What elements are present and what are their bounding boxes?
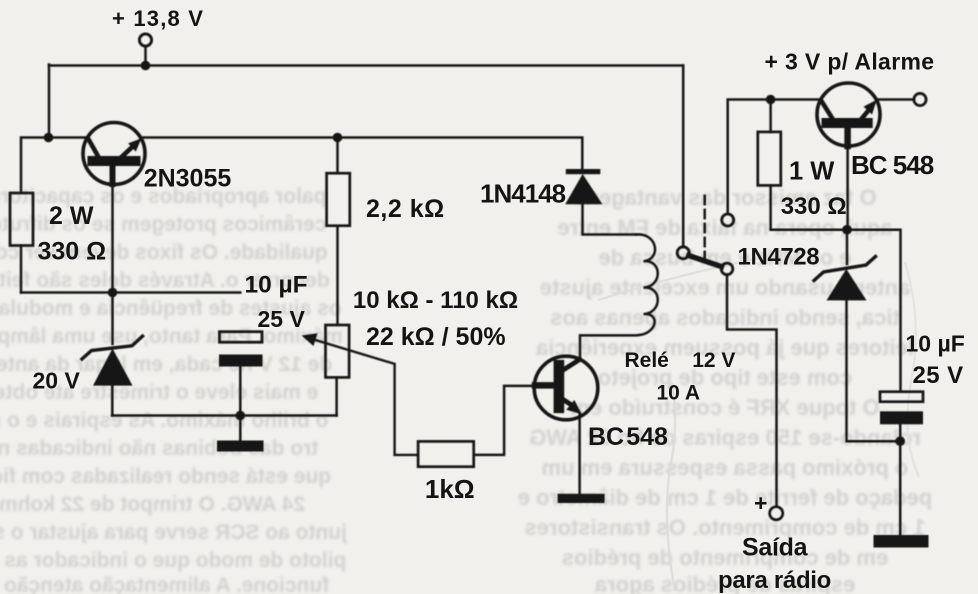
- wire C1 bottom lead: [239, 367, 242, 416]
- junction dot supply: [141, 61, 151, 71]
- svg-text:330 Ω: 330 Ω: [781, 193, 847, 220]
- wire R1 bottom lead: [20, 246, 23, 293]
- transistor Q3 emitter stroke: [861, 111, 868, 120]
- wire collector rail to Q1: [49, 136, 89, 139]
- transistor Q2 collector stroke: [564, 359, 580, 369]
- svg-text:25 V: 25 V: [913, 362, 964, 389]
- svg-text:o próximo passa espessura em u: o próximo passa espessura em um: [542, 455, 909, 480]
- zener D2 20V cathode bar: [82, 336, 143, 359]
- transistor Q1 base bar: [88, 156, 141, 166]
- capacitor C2 top plate: [880, 392, 923, 402]
- node radio output terminal: [770, 507, 783, 520]
- wire switch feed from rail: [682, 66, 685, 247]
- svg-text:2N3055: 2N3055: [144, 165, 232, 193]
- diode D1 1N4148 cathode bar: [566, 169, 601, 174]
- junction dot zener top: [842, 225, 852, 235]
- wire R2 to trimpot: [336, 226, 339, 325]
- wire ground stub C1: [239, 416, 242, 441]
- svg-text:junto ao SCR serve para ajusta: junto ao SCR serve para ajustar o sinal: [0, 521, 348, 544]
- bleed-through mirrored text (back of page): [0, 185, 932, 594]
- node +13,8V terminal: [139, 34, 151, 46]
- transistor Q2 BC548 mid circle: [534, 356, 598, 420]
- relay K1 coil: [580, 234, 658, 359]
- svg-text:2 W: 2 W: [49, 202, 94, 230]
- wire C2 bottom lead: [899, 424, 902, 441]
- svg-text:1N4148: 1N4148: [480, 179, 566, 209]
- svg-text:330 Ω: 330 Ω: [38, 238, 107, 266]
- svg-text:1 cm de comprimento. Os transi: 1 cm de comprimento. Os transistores: [524, 515, 925, 540]
- ground bar middle: [558, 494, 605, 503]
- capacitor C1 top plate: [220, 332, 263, 343]
- diode D1 triangle: [565, 174, 602, 204]
- wire R4 top lead: [769, 100, 772, 132]
- svg-text:BC 548: BC 548: [851, 150, 934, 180]
- svg-text:10 µF: 10 µF: [245, 272, 308, 299]
- ground bar left: [217, 441, 264, 452]
- wire Q1 emitter rail right: [140, 138, 582, 170]
- wire top supply rail: [49, 64, 683, 67]
- wire bottom rail 2: [112, 414, 337, 417]
- zener D2 triangle: [93, 349, 133, 386]
- zener D3 1N4728 cathode bar: [814, 257, 876, 281]
- switch S1 pole contact: [677, 247, 689, 259]
- switch S1 dashed link: [703, 196, 706, 259]
- junction dot left rail: [44, 133, 54, 143]
- junction dot alarm rail: [766, 95, 776, 105]
- wire Q3 emitter to terminal: [876, 98, 914, 101]
- transistor Q3 base bar: [822, 118, 873, 128]
- junction dot 2.2k top: [333, 133, 343, 143]
- svg-text:+ 13,8 V: + 13,8 V: [112, 6, 204, 31]
- svg-text:que está sendo realizadas com: que está sendo realizadas com fio 2: [0, 465, 331, 488]
- transistor Q1 emitter stroke: [122, 146, 134, 157]
- wire D2 anode lead: [111, 386, 114, 416]
- svg-text:20 V: 20 V: [33, 368, 81, 394]
- svg-text:BC 548: BC 548: [588, 423, 668, 451]
- svg-text:+: +: [754, 490, 767, 516]
- transistor Q1 collector stroke: [88, 138, 99, 157]
- svg-text:piloto de modo que o indicador: piloto de modo que o indicador as leve: [0, 549, 346, 572]
- wire bottom-left rail: [21, 291, 240, 294]
- svg-text:25 V: 25 V: [258, 306, 306, 332]
- wire jog to R1 top: [21, 138, 49, 194]
- svg-text:22 kΩ / 50%: 22 kΩ / 50%: [366, 323, 506, 351]
- trimpot P1 body: [326, 325, 350, 377]
- transistor Q2 base bar: [554, 360, 565, 413]
- svg-text:10 A: 10 A: [657, 382, 701, 405]
- zener D3 triangle: [827, 269, 867, 300]
- wire ground stub C2: [899, 441, 902, 535]
- svg-text:24 AWG. O trimpot de 22 kohm: 24 AWG. O trimpot de 22 kohm: [0, 493, 305, 516]
- wire terminal stub: [144, 46, 147, 66]
- svg-text:10 µF: 10 µF: [906, 331, 965, 357]
- trimpot P1 wiper diagonal: [306, 337, 418, 455]
- transistor Q3 collector stroke: [821, 100, 833, 120]
- svg-text:10 kΩ - 110 kΩ: 10 kΩ - 110 kΩ: [353, 287, 518, 314]
- wire Q1 base down to zener: [110, 165, 116, 184]
- ground bar right: [874, 535, 929, 548]
- svg-text:1N4728: 1N4728: [738, 244, 820, 271]
- switch S1 lower throw contact: [721, 263, 733, 275]
- svg-text:O toque XRF é construído em: O toque XRF é construído em: [570, 395, 879, 420]
- faint scan crease bottom middle: [667, 383, 675, 591]
- wire upper throw to alarm rail: [728, 100, 822, 214]
- wire switch lower throw to output: [727, 275, 777, 507]
- resistor R2 2.2k body: [327, 173, 350, 226]
- junction dot base line on bottom-left rail: [108, 288, 118, 298]
- switch S1 upper throw contact: [722, 214, 734, 226]
- transistor Q3 emitter arrowhead: [864, 100, 877, 115]
- svg-text:2,2 kΩ: 2,2 kΩ: [366, 195, 445, 223]
- faint scan arc right edge: [905, 262, 919, 477]
- faint scan arc under 1N4728: [598, 252, 792, 300]
- node alarm output terminal: [914, 93, 926, 105]
- resistor R3 1k body: [418, 441, 474, 466]
- wire Q3 base down: [844, 127, 851, 146]
- wire Q2 emitter down: [578, 413, 581, 494]
- wire R3 to Q2 base: [474, 386, 536, 455]
- wire D3 top lead: [846, 230, 849, 264]
- wire left drop to collector rail: [48, 65, 51, 138]
- transistor Q3 BC548 top circle: [817, 83, 880, 146]
- wire trimpot bottom lead: [335, 377, 338, 415]
- transistor Q2 emitter arrowhead: [566, 400, 582, 414]
- wire D1 anode to relay top: [583, 204, 637, 234]
- wire R4 bottom lead: [769, 185, 772, 229]
- junction dot C1 bottom: [236, 411, 246, 421]
- svg-text:1 W: 1 W: [789, 158, 835, 186]
- trimpot P1 wiper arrowhead: [302, 333, 318, 346]
- transistor Q1 2N3055 circle: [83, 123, 145, 185]
- transistor Q1 emitter arrowhead: [128, 138, 141, 151]
- svg-text:para rádio: para rádio: [718, 567, 831, 594]
- svg-text:1kΩ: 1kΩ: [425, 474, 475, 504]
- wire zener rail right: [771, 230, 901, 392]
- svg-text:+ 3 V p/ Alarme: + 3 V p/ Alarme: [765, 49, 935, 75]
- svg-text:Saída: Saída: [742, 534, 809, 562]
- wire Q2 base stub thick: [535, 382, 554, 389]
- svg-text:tro das bobinas não indicadas: tro das bobinas não indicadas ne: [0, 437, 318, 460]
- wire 2.2k top lead: [336, 138, 339, 174]
- switch S1 lever: [689, 256, 722, 267]
- wire D3 anode down: [847, 300, 901, 441]
- resistor R4 1W 330ohm body: [758, 132, 781, 186]
- svg-text:Relé 12 V: Relé 12 V: [625, 349, 736, 372]
- capacitor C2 bottom plate: [880, 411, 923, 424]
- resistor R1 2W 330ohm body: [10, 193, 33, 246]
- transistor Q2 emitter stroke: [564, 400, 572, 405]
- svg-text:o brilho máximo. As espirais e: o brilho máximo. As espirais e o nú: [0, 409, 328, 432]
- junction dot C2 bottom: [895, 436, 905, 446]
- svg-text:funcione. A alimentação atençã: funcione. A alimentação atenção se: [0, 574, 329, 594]
- capacitor C1 bottom plate: [219, 355, 263, 367]
